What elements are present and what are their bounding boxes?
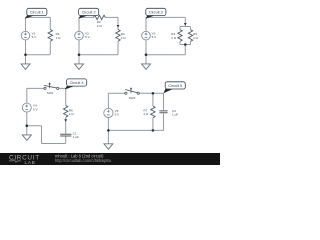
- svg-text:1 μF: 1 μF: [172, 113, 178, 117]
- svg-text:2 Ω: 2 Ω: [97, 24, 103, 28]
- svg-text:Circuit 3: Circuit 3: [149, 11, 163, 15]
- svg-text:SW1: SW1: [47, 91, 54, 95]
- svg-text:1 Ω: 1 Ω: [56, 36, 62, 40]
- svg-text:Circuit 2: Circuit 2: [82, 11, 96, 15]
- svg-text:http://circuitlab.com/c/5kbwp8: http://circuitlab.com/c/5kbwp8u: [55, 158, 111, 163]
- svg-text:Circuit 5: Circuit 5: [168, 84, 182, 88]
- svg-text:2 Ω: 2 Ω: [193, 36, 199, 40]
- svg-text:Circuit 4: Circuit 4: [70, 81, 84, 85]
- svg-text:LAB: LAB: [25, 160, 36, 165]
- svg-text:4 Ω: 4 Ω: [143, 112, 149, 116]
- svg-text:1 Ω: 1 Ω: [69, 112, 75, 116]
- svg-text:1 μF: 1 μF: [73, 135, 79, 139]
- svg-text:2 Ω: 2 Ω: [171, 36, 177, 40]
- svg-text:2 Ω: 2 Ω: [121, 36, 127, 40]
- svg-text:Circuit 1: Circuit 1: [30, 11, 44, 15]
- svg-text:SW2: SW2: [129, 96, 136, 100]
